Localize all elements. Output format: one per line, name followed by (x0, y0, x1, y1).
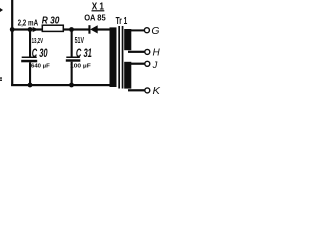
capacitor C30 top plate (22, 57, 37, 59)
svg-text:51V: 51V (75, 36, 85, 45)
svg-text:100 µF: 100 µF (70, 64, 91, 70)
current arrow 2,2 mA (33, 27, 39, 32)
diode X1 triangle (90, 25, 98, 33)
node: junction C30 / bottom wire (28, 83, 33, 88)
wire: C30 branch upper (29, 30, 31, 58)
wire: tap to terminal K (128, 89, 145, 91)
wire: tap to terminal G (128, 29, 144, 31)
node: junction C31 / bottom wire (69, 83, 74, 88)
node: junction C31 branch / top wire (69, 27, 74, 32)
transformer Tr1 secondary winding section 1 (124, 29, 131, 50)
svg-text:G: G (151, 26, 159, 37)
wire: diode to transformer primary (98, 28, 111, 30)
wire: tap to terminal J (128, 63, 145, 65)
terminal K circle (145, 88, 150, 93)
node: junction left rail / top wire (10, 27, 15, 32)
svg-text:2,2 mA: 2,2 mA (18, 19, 39, 28)
wire: tap to terminal H (128, 51, 145, 53)
transformer Tr1 secondary winding section 2 (124, 62, 131, 89)
transformer Tr1 primary winding (110, 27, 117, 87)
svg-text:13,2V: 13,2V (32, 36, 44, 45)
transformer core line 1 (118, 26, 120, 89)
wire: C30 branch lower (29, 62, 31, 86)
wire: C31 branch upper (71, 30, 73, 58)
svg-text:C 30: C 30 (32, 46, 48, 60)
capacitor C30 bottom plate (21, 60, 37, 63)
svg-text:R 30: R 30 (42, 16, 60, 27)
capacitor C31 bottom plate (66, 59, 81, 61)
wire: top horizontal from left rail to resistor (11, 28, 42, 30)
wire: left vertical rail (11, 0, 13, 86)
wire: bottom horizontal rail (11, 84, 110, 86)
wire: resistor to diode (63, 28, 89, 30)
diode X1 cathode bar (88, 25, 90, 34)
terminal J circle (145, 61, 150, 66)
resistor R30 (42, 25, 63, 31)
terminal G circle (144, 28, 149, 33)
svg-text:C 31: C 31 (76, 46, 92, 60)
terminal H circle (145, 49, 150, 54)
svg-text:OA 85: OA 85 (84, 13, 106, 23)
svg-text:640 µF: 640 µF (31, 64, 50, 70)
wire: C31 branch lower (71, 62, 73, 86)
transformer core line 2 (122, 26, 124, 89)
capacitor C31 top plate (66, 57, 80, 59)
svg-text:J: J (152, 59, 158, 70)
cut-off mark at left edge bottom (0, 77, 2, 78)
node: junction C30 branch / top wire (28, 27, 33, 32)
svg-text:Tr 1: Tr 1 (116, 16, 128, 27)
svg-text:H: H (153, 47, 161, 58)
cut-off arrowhead mark at left edge top (0, 8, 3, 12)
